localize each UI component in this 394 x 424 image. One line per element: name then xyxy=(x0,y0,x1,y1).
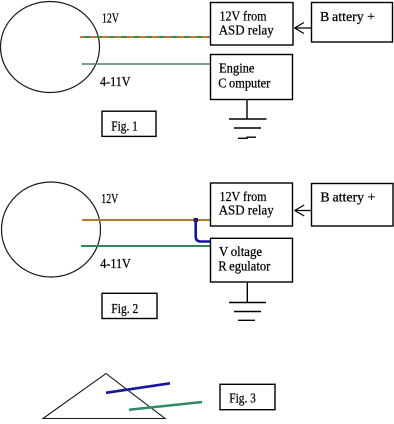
wire 4-11V green solid (Fig.2) xyxy=(81,245,211,247)
caption box Fig. 1 xyxy=(102,111,156,136)
green ray (Fig.3) xyxy=(129,402,202,410)
prism triangle (Fig.3) xyxy=(43,374,165,419)
box U1: 12V from ASD relay (Fig.1) xyxy=(211,3,294,46)
svg-text:Engine: Engine xyxy=(219,62,255,77)
wire 12V orange/dark-green dashed (Fig.1) xyxy=(80,36,210,38)
wire 4-11V teal (Fig.1) xyxy=(82,63,210,65)
wire to ground (Fig.2) xyxy=(246,282,248,303)
svg-text:V oltage: V oltage xyxy=(219,245,262,260)
ground symbol (Fig.1) xyxy=(229,119,267,138)
svg-text:12V: 12V xyxy=(102,12,119,27)
svg-text:12V from: 12V from xyxy=(220,9,267,24)
ground symbol (Fig.2) xyxy=(229,303,266,321)
svg-text:4-11V: 4-11V xyxy=(100,257,131,272)
caption box Fig. 2 xyxy=(102,293,157,318)
svg-text:B attery +: B attery + xyxy=(320,191,375,206)
box U2: Engine Computer (Fig.1) xyxy=(211,55,293,100)
box B2: Battery + (Fig.2) xyxy=(312,184,394,227)
bulb circle (Fig.1) xyxy=(1,2,100,93)
svg-text:ASD relay: ASD relay xyxy=(219,204,274,219)
box U4: Voltage Regulator (Fig.2) xyxy=(211,238,293,282)
caption box Fig 3 xyxy=(220,384,275,409)
bulb circle (Fig.2) xyxy=(2,182,101,277)
wire blue jumper from 12V wire to Voltage Regulator (Fig.2) xyxy=(194,218,211,242)
svg-text:Fig. 1: Fig. 1 xyxy=(111,119,138,134)
svg-text:ASD relay: ASD relay xyxy=(219,24,274,39)
wire 12V orange solid (Fig.2) xyxy=(82,219,211,221)
arrow Battery+ to ASD relay (Fig.2) xyxy=(295,205,311,216)
svg-text:B attery +: B attery + xyxy=(320,10,375,25)
svg-text:C omputer: C omputer xyxy=(218,76,270,91)
box B1: Battery + (Fig.1) xyxy=(312,3,393,43)
svg-text:R egulator: R egulator xyxy=(218,259,270,274)
arrow Battery+ to ASD relay (Fig.1) xyxy=(295,23,312,34)
svg-text:Fig. 3: Fig. 3 xyxy=(229,391,256,406)
wire to ground (Fig.1) xyxy=(246,100,248,120)
svg-text:4-11V: 4-11V xyxy=(100,75,131,90)
svg-text:12V: 12V xyxy=(101,192,118,207)
blue ray (Fig.3) xyxy=(106,383,170,393)
box U3: 12V from ASD relay (Fig.2) xyxy=(211,183,293,226)
svg-text:Fig. 2: Fig. 2 xyxy=(111,302,138,317)
